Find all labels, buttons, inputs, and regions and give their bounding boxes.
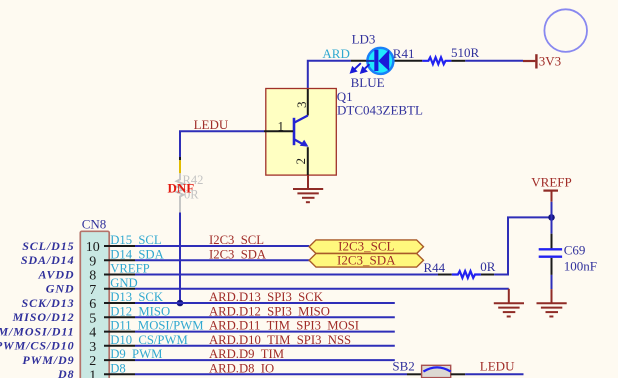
svg-text:ARD.D13 SPI3 SCK: ARD.D13 SPI3 SCK (209, 290, 324, 304)
svg-text:ARD: ARD (322, 46, 349, 61)
svg-text:VREFP: VREFP (110, 262, 150, 276)
svg-text:3: 3 (294, 102, 309, 109)
svg-text:1: 1 (89, 368, 96, 378)
svg-text:I2C3 SCL: I2C3 SCL (209, 233, 264, 247)
svg-text:5: 5 (89, 311, 96, 326)
svg-text:D13 SCK: D13 SCK (110, 290, 164, 304)
svg-text:0R: 0R (480, 259, 496, 274)
svg-text:BLUE: BLUE (351, 75, 385, 90)
svg-text:2: 2 (89, 354, 96, 369)
svg-text:D9 PWM: D9 PWM (110, 347, 162, 361)
svg-text:D11 MOSI/PWM: D11 MOSI/PWM (110, 319, 203, 333)
svg-text:SCK/D13: SCK/D13 (22, 296, 75, 310)
svg-text:GND: GND (110, 276, 138, 290)
svg-text:2: 2 (293, 158, 308, 165)
svg-text:R41: R41 (393, 46, 415, 61)
svg-text:LEDU: LEDU (194, 117, 229, 132)
svg-text:I2C3_SDA: I2C3_SDA (337, 252, 396, 267)
svg-text:9: 9 (89, 254, 96, 269)
svg-text:ARD.D12 SPI3 MISO: ARD.D12 SPI3 MISO (209, 304, 330, 318)
svg-text:LD3: LD3 (352, 32, 376, 47)
svg-text:3V3: 3V3 (539, 53, 561, 68)
svg-text:ARD.D8 IO: ARD.D8 IO (209, 361, 274, 375)
svg-text:SDA/D14: SDA/D14 (21, 253, 75, 267)
svg-text:D10 CS/PWM: D10 CS/PWM (110, 333, 188, 347)
svg-text:R44: R44 (424, 260, 446, 275)
svg-text:PWM/MOSI/D11: PWM/MOSI/D11 (0, 325, 75, 339)
svg-text:510R: 510R (451, 45, 480, 60)
svg-text:CN8: CN8 (82, 216, 107, 231)
svg-text:ARD.D10 TIM SPI3 NSS: ARD.D10 TIM SPI3 NSS (209, 333, 351, 347)
svg-text:1: 1 (278, 119, 285, 134)
svg-text:D8: D8 (57, 367, 74, 378)
svg-text:ARD.D9 TIM: ARD.D9 TIM (209, 347, 284, 361)
svg-text:DNF: DNF (168, 181, 195, 196)
svg-text:I2C3 SDA: I2C3 SDA (209, 247, 267, 261)
svg-text:C69: C69 (564, 243, 586, 258)
svg-text:4: 4 (89, 326, 96, 341)
svg-text:3: 3 (89, 340, 96, 355)
svg-text:D8: D8 (110, 361, 126, 375)
svg-text:SCL/D15: SCL/D15 (22, 239, 74, 253)
svg-text:6: 6 (89, 297, 96, 312)
svg-text:7: 7 (89, 283, 96, 298)
svg-text:100nF: 100nF (564, 259, 597, 274)
svg-text:PWM/CS/D10: PWM/CS/D10 (0, 339, 75, 353)
svg-text:10: 10 (86, 240, 100, 255)
svg-text:8: 8 (89, 269, 96, 284)
svg-text:D14 SDA: D14 SDA (110, 247, 164, 261)
svg-text:SB2: SB2 (392, 359, 414, 374)
svg-text:D12 MISO: D12 MISO (110, 304, 170, 318)
svg-text:VREFP: VREFP (531, 174, 571, 189)
svg-text:ARD.D11 TIM SPI3 MOSI: ARD.D11 TIM SPI3 MOSI (209, 319, 359, 333)
svg-text:LEDU: LEDU (480, 359, 515, 374)
svg-text:GND: GND (46, 282, 75, 296)
svg-text:DTC043ZEBTL: DTC043ZEBTL (337, 103, 423, 118)
svg-text:AVDD: AVDD (37, 267, 74, 281)
svg-text:PWM/D9: PWM/D9 (22, 353, 74, 367)
svg-text:MISO/D12: MISO/D12 (12, 310, 75, 324)
svg-text:D15 SCL: D15 SCL (110, 233, 161, 247)
